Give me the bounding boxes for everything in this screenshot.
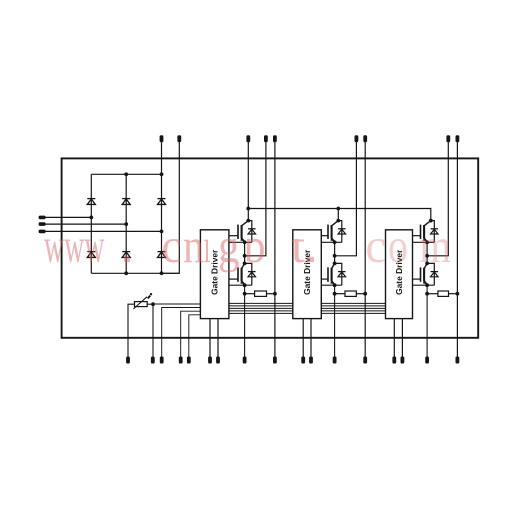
terminal driver 2 pin 1 bbox=[301, 357, 305, 364]
wire phase W emitter leg bbox=[426, 285, 428, 356]
terminal control pin 3 bottom bbox=[179, 357, 183, 364]
node phase V shunt right bbox=[363, 292, 367, 296]
terminal thermistor pin 1 bbox=[126, 357, 130, 364]
resistor R3 (shunt) bbox=[427, 291, 457, 296]
terminal driver 3 pin 2 bbox=[401, 357, 405, 364]
wire driver 3 high gate bbox=[413, 235, 421, 237]
terminal NV sense bbox=[363, 135, 367, 356]
node Q1 collector phase U bbox=[246, 219, 250, 223]
node phase W shunt right bbox=[456, 292, 460, 296]
terminal R/S/T input 2 bbox=[39, 222, 127, 226]
wire bridge leg 3 bbox=[161, 174, 163, 273]
wire driver 3 control stub 2 bbox=[401, 319, 403, 357]
wire rectifier negative bus bbox=[91, 272, 179, 274]
node phase W shunt left bbox=[425, 292, 429, 296]
wire bridge leg 2 bbox=[125, 174, 127, 273]
node thermistor junction bbox=[151, 302, 155, 306]
node phase U midpoint bbox=[243, 254, 247, 258]
wire driver 3 high emitter kelvin bbox=[413, 241, 435, 243]
junction bridge top bus bbox=[124, 172, 163, 176]
terminal driver 1 pin 1 bbox=[208, 357, 212, 364]
wire P bus bbox=[248, 209, 430, 221]
wire bus line 4 bbox=[189, 315, 201, 357]
terminal phase W emitter bottom bbox=[425, 357, 429, 364]
wire driver 1 low gate bbox=[229, 278, 238, 280]
wire driver 2 low gate bbox=[321, 278, 328, 280]
op-amp U1 gate driver block bbox=[200, 230, 229, 319]
wire control bus driver1-driver2 bbox=[229, 303, 293, 313]
diode D12 (freewheel) phase W bbox=[427, 263, 438, 285]
node Q6 emitter phase W bbox=[425, 283, 429, 287]
diode D1 (bridge upper) bbox=[87, 199, 95, 205]
wire driver 1 low emitter kelvin bbox=[229, 284, 252, 286]
terminal driver 3 pin 1 bbox=[392, 357, 396, 364]
wire bus line 2 bbox=[162, 308, 201, 357]
terminal P (DC+) bbox=[246, 135, 250, 220]
diode D10 (freewheel) phase V bbox=[335, 263, 346, 285]
wire bus line thermistor signal bbox=[153, 303, 200, 305]
terminal U output bbox=[245, 135, 268, 256]
node phase U shunt left bbox=[243, 292, 247, 296]
transistor Q6 phase W bbox=[421, 263, 429, 284]
wire rectifier positive bus bbox=[91, 173, 163, 175]
terminal V output bbox=[335, 135, 359, 256]
junction AC nodes bbox=[89, 216, 163, 234]
diode D4 (bridge lower) bbox=[87, 252, 95, 258]
diode D6 (bridge lower) bbox=[158, 252, 166, 258]
diode D8 (freewheel) phase U bbox=[245, 263, 256, 285]
wire driver 1 high gate bbox=[229, 235, 238, 237]
wire P leg phase 2 bbox=[337, 209, 339, 221]
wire phase V emitter leg bbox=[334, 285, 336, 356]
node phase V shunt left bbox=[333, 292, 337, 296]
transistor Q2 phase U bbox=[238, 263, 246, 284]
diode D2 (bridge upper) bbox=[122, 199, 130, 205]
junction P bus nodes bbox=[246, 207, 340, 211]
transistor Q5 phase W bbox=[421, 221, 431, 242]
transistor Q1 phase U bbox=[238, 221, 248, 242]
diode D9 (freewheel) phase V bbox=[338, 221, 346, 243]
wire bus line 3 bbox=[181, 311, 201, 356]
wire phase U midpoint leg bbox=[244, 242, 246, 263]
terminal driver 1 pin 2 bbox=[216, 357, 220, 364]
diode D5 (bridge lower) bbox=[122, 252, 130, 258]
module case outline bbox=[62, 158, 479, 337]
node Q4 emitter phase V bbox=[333, 283, 337, 287]
transistor Q4 phase V bbox=[328, 263, 336, 284]
watermark www.cnigbt.com bbox=[44, 219, 451, 273]
wire phase V midpoint leg bbox=[334, 242, 336, 263]
terminal phase V emitter bottom bbox=[333, 357, 337, 364]
node Q5 collector phase W bbox=[429, 219, 433, 223]
wire thermistor right lead bbox=[147, 304, 153, 356]
terminal phase U emitter bottom bbox=[243, 357, 247, 364]
terminal NU bottom bbox=[273, 357, 277, 364]
node phase W midpoint bbox=[425, 254, 429, 258]
junction bridge bottom bus bbox=[124, 271, 163, 275]
wire driver 2 high gate bbox=[321, 235, 328, 237]
wire driver 3 low emitter kelvin bbox=[413, 284, 435, 286]
op-amp U2 gate driver block bbox=[293, 230, 322, 319]
node phase V midpoint bbox=[333, 254, 337, 258]
node Q2 emitter phase U bbox=[243, 283, 247, 287]
node Q4 collector phase V bbox=[333, 262, 337, 266]
node Q3 collector phase V bbox=[336, 219, 340, 223]
wire driver 3 low gate bbox=[413, 278, 421, 280]
terminal control pin 4 bottom bbox=[187, 357, 191, 364]
terminal NU sense bbox=[273, 135, 277, 356]
wire control bus driver2-driver3 bbox=[321, 303, 385, 313]
node phase U shunt right bbox=[273, 292, 277, 296]
wire driver 1 high emitter kelvin bbox=[229, 241, 252, 243]
terminal control pin 2 bottom bbox=[160, 357, 164, 364]
wire driver 2 low emitter kelvin bbox=[321, 284, 342, 286]
wire driver 2 control stub 1 bbox=[302, 319, 304, 357]
transistor Q3 phase V bbox=[328, 221, 338, 242]
resistor R2 (shunt) bbox=[335, 291, 366, 296]
wire driver 2 high emitter kelvin bbox=[321, 241, 342, 243]
terminal rectifier - output bbox=[162, 135, 182, 273]
terminal thermistor pin 2 bbox=[151, 357, 155, 364]
terminal NW bottom bbox=[456, 357, 460, 364]
node Q5 emitter phase W bbox=[425, 240, 429, 244]
diode D7 (freewheel) phase U bbox=[248, 221, 256, 243]
node Q3 emitter phase V bbox=[333, 240, 337, 244]
terminal R/S/T input 3 bbox=[39, 230, 162, 234]
diode D11 (freewheel) phase W bbox=[431, 221, 439, 243]
terminal R/S/T input 1 bbox=[39, 216, 92, 220]
wire driver 1 control stub 1 bbox=[209, 319, 211, 357]
terminal driver 2 pin 2 bbox=[309, 357, 313, 364]
terminal W output bbox=[427, 135, 450, 256]
terminal NW sense bbox=[456, 135, 460, 356]
wire phase U emitter leg bbox=[244, 285, 246, 356]
node Q6 collector phase W bbox=[425, 262, 429, 266]
wire thermistor left lead bbox=[128, 304, 135, 356]
thermistor RT1 bbox=[133, 293, 152, 309]
wire driver 1 control stub 2 bbox=[217, 319, 219, 357]
terminal NV bottom bbox=[363, 357, 367, 364]
wire driver 2 control stub 2 bbox=[310, 319, 312, 357]
op-amp U3 gate driver block bbox=[386, 230, 413, 319]
wire driver 3 control stub 1 bbox=[393, 319, 395, 357]
node Q2 collector phase U bbox=[243, 262, 247, 266]
wire bridge leg 1 bbox=[90, 174, 92, 273]
resistor R1 (shunt) bbox=[245, 291, 275, 296]
terminal rectifier + output bbox=[160, 135, 164, 174]
node Q1 emitter phase U bbox=[243, 240, 247, 244]
diode D3 (bridge upper) bbox=[158, 199, 166, 205]
wire phase W midpoint leg bbox=[426, 242, 428, 263]
